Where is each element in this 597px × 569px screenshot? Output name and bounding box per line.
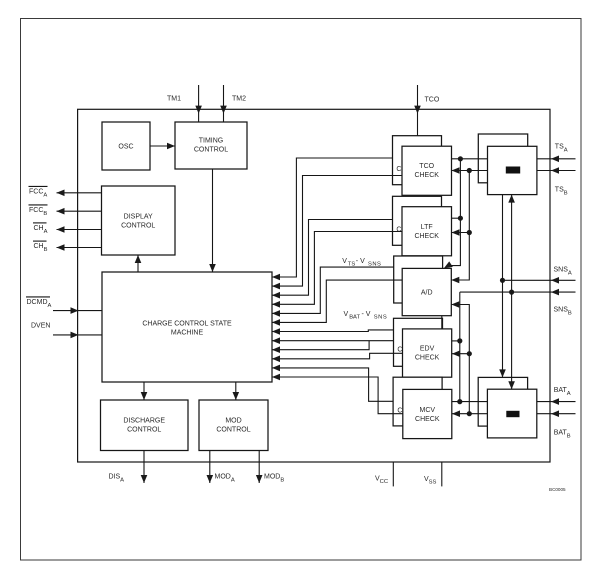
wire MCV-A result to SM: [272, 377, 403, 414]
svg-text:C: C: [396, 166, 401, 173]
block EDV CHECK B (back): [394, 318, 443, 366]
svg-text:CONTROL: CONTROL: [127, 427, 161, 434]
wire BAT mux to MCV upper: [452, 401, 487, 403]
svg-text:CHECK: CHECK: [414, 233, 439, 240]
wire DCMDA in: [53, 310, 102, 312]
wire DISA out: [143, 451, 145, 484]
block DISPLAY CONTROL: [102, 186, 176, 255]
svg-text:A/D: A/D: [421, 290, 433, 297]
svg-text:MACHINE: MACHINE: [171, 330, 204, 337]
IC boundary: [78, 109, 550, 462]
svg-text:TCO: TCO: [425, 97, 440, 104]
wire A/D VBAT-VSNS to SM: [272, 280, 402, 322]
wire CHB out: [57, 247, 102, 249]
wire charge SM to display: [137, 255, 139, 272]
block OSC: [102, 122, 150, 170]
node VSS pin: [441, 462, 443, 486]
wire EDV-A result to SM: [272, 341, 369, 350]
block CHARGE CONTROL STATE MACHINE: [102, 272, 272, 382]
svg-text:CONTROL: CONTROL: [216, 427, 250, 434]
wire FCCA out: [57, 192, 102, 194]
block BAT mux A (front): [487, 389, 536, 438]
wire MODA out: [209, 451, 211, 484]
wire LTF out tee: [452, 217, 461, 219]
wire TS bus B down to A/D right: [451, 171, 469, 281]
block TCO CHECK A (front): [402, 146, 452, 195]
wire CHA out: [57, 229, 102, 231]
wire EDV-B upper result to SM: [272, 330, 394, 332]
wire FCCB out: [57, 210, 102, 212]
wire TS bus A down to A/D top: [448, 159, 461, 266]
svg-text:EDV: EDV: [420, 346, 435, 353]
block TS mux A (front): [488, 146, 537, 194]
svg-text:CONTROL: CONTROL: [194, 147, 228, 154]
block BAT mux B (back): [478, 377, 527, 426]
svg-text:DISCHARGE: DISCHARGE: [123, 418, 165, 425]
wire TM1 pin: [198, 85, 200, 122]
wire A/D VTS-VSNS to SM: [272, 267, 394, 313]
svg-text:MCV: MCV: [420, 407, 436, 414]
block MCV CHECK B (back): [393, 377, 442, 426]
wire A/D to EDV connector: [441, 316, 443, 329]
block MCV CHECK A (front): [403, 389, 452, 438]
wire charge SM to discharge: [143, 382, 145, 400]
svg-text:C: C: [396, 227, 401, 234]
block LTF CHECK A (front): [402, 207, 452, 256]
wire EDV out tee: [452, 340, 460, 342]
svg-text:CHECK: CHECK: [415, 416, 440, 423]
block LTF CHECK B (back): [393, 196, 442, 245]
block EDV CHECK A (front): [403, 329, 452, 377]
wire TCO-A result to SM: [272, 176, 402, 287]
wire MODB out: [258, 451, 260, 484]
wire TSB input: [537, 170, 576, 172]
wire EDV-A lower result to SM: [272, 353, 403, 359]
wire BATB input: [537, 413, 576, 415]
block TIMING CONTROL: [175, 122, 247, 169]
wire TCO pin: [417, 85, 419, 136]
svg-text:CHECK: CHECK: [415, 355, 440, 362]
wire MCV-B result to SM: [272, 368, 393, 401]
wire LTF-A result to SM: [272, 232, 402, 305]
wire EDV lower in: [452, 353, 469, 355]
wire LTF lower in: [452, 232, 470, 234]
BAT mux minus bar: [506, 411, 519, 417]
svg-text:LTF: LTF: [421, 224, 433, 231]
block TCO CHECK B (back): [393, 136, 442, 185]
wire EDV-B result to SM: [272, 340, 394, 342]
svg-text:DVEN: DVEN: [31, 323, 50, 330]
block DISCHARGE CONTROL: [101, 400, 189, 451]
wire SNSB input: [460, 291, 576, 293]
svg-text:TCO: TCO: [419, 163, 434, 170]
svg-text:OSC: OSC: [118, 144, 133, 151]
svg-text:TIMING: TIMING: [199, 138, 224, 145]
wire OSC to timing: [150, 145, 175, 147]
node VCC pin: [392, 462, 394, 486]
wire TS mux to TCO upper: [452, 158, 488, 160]
block TS mux B (back): [478, 134, 527, 183]
svg-text:CHECK: CHECK: [414, 172, 439, 179]
svg-text:DISPLAY: DISPLAY: [124, 214, 153, 221]
wire TM2 pin: [223, 85, 225, 122]
wire TCO-B result to SM: [272, 158, 393, 277]
wire TSA input: [537, 158, 576, 160]
svg-text:BC0005: BC0005: [549, 487, 566, 492]
wire SNSA input: [503, 279, 576, 281]
wire SNSB bus down to MCV line: [459, 292, 461, 402]
wire BAT bus up to A/D right: [451, 305, 469, 414]
wire timing to charge SM: [212, 169, 214, 272]
wire BAT mux to MCV lower: [452, 413, 487, 415]
TS mux minus bar: [506, 167, 520, 174]
block A/D B (back): [394, 256, 443, 303]
wire SNS A vertical TS mux to BAT mux: [502, 195, 504, 378]
wire SNS B vertical TS mux to BAT mux: [511, 195, 513, 390]
wire DVEN in: [53, 334, 102, 336]
svg-text:C: C: [397, 346, 402, 353]
block A/D A (front): [402, 268, 451, 315]
wire charge SM to mod: [235, 382, 237, 400]
svg-text:CONTROL: CONTROL: [121, 223, 155, 230]
block MOD CONTROL: [199, 400, 268, 451]
wire LTF-B result to SM: [272, 220, 393, 296]
svg-text:CHARGE CONTROL STATE: CHARGE CONTROL STATE: [142, 321, 232, 328]
wire BATA input: [537, 401, 576, 403]
svg-text:MOD: MOD: [225, 418, 241, 425]
wire TS mux to TCO lower: [452, 170, 488, 172]
svg-text:TM1: TM1: [167, 96, 181, 103]
svg-text:TM2: TM2: [232, 96, 246, 103]
